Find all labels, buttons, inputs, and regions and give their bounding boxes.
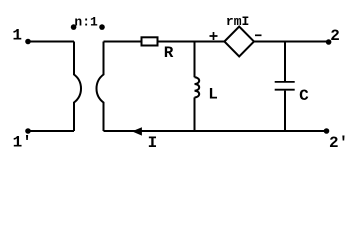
wire top from transformer secondary to resistor R <box>104 41 141 43</box>
svg-text:L: L <box>208 85 218 103</box>
svg-text:1: 1 <box>12 27 22 45</box>
capacitor C bottom plate <box>275 89 295 91</box>
polarity dot secondary <box>99 24 105 30</box>
svg-text:rmI: rmI <box>226 14 249 29</box>
svg-text:2: 2 <box>330 27 340 45</box>
svg-text:n:1: n:1 <box>74 14 98 29</box>
inductor L branch wire top <box>194 42 196 78</box>
inductor L branch wire bottom <box>194 97 196 131</box>
capacitor C branch wire bottom <box>284 91 286 131</box>
wire bottom-left from transformer primary to node 1' <box>28 130 74 132</box>
bottom rail wire from transformer secondary to node 2' <box>104 130 327 132</box>
minus sign <box>255 34 262 36</box>
plus sign <box>210 32 218 40</box>
transformer T1 secondary winding <box>96 42 103 132</box>
node 2' terminal dot <box>324 128 330 134</box>
resistor R <box>142 37 158 45</box>
node 1' terminal dot <box>25 128 31 134</box>
current arrow I <box>133 128 142 135</box>
svg-text:C: C <box>299 87 309 105</box>
wire top from resistor R to source U1 <box>159 41 225 43</box>
svg-text:R: R <box>164 44 174 62</box>
svg-text:1': 1' <box>13 133 32 151</box>
wire top from source U1 to node 2 <box>254 41 329 43</box>
capacitor C top plate <box>275 81 295 83</box>
dependent voltage source U1 diamond <box>224 27 254 57</box>
svg-text:I: I <box>148 134 158 152</box>
node 1 terminal dot <box>25 39 31 45</box>
transformer T1 primary winding <box>74 42 81 132</box>
polarity dot primary <box>71 24 77 30</box>
wire top-left from node 1 to transformer primary <box>28 41 74 43</box>
capacitor C branch wire top <box>284 42 286 82</box>
node 2 terminal dot <box>326 39 332 45</box>
inductor L coil <box>195 77 200 97</box>
svg-text:2': 2' <box>329 134 348 152</box>
